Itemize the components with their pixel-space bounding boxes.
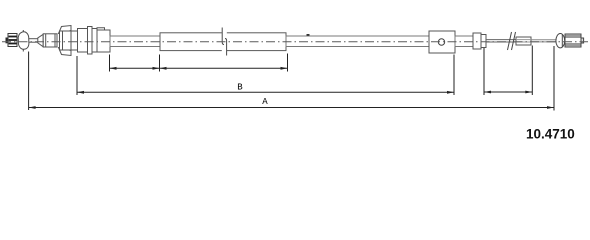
ferrule large bbox=[473, 33, 481, 49]
bare inner cable right segment bbox=[531, 40, 556, 42]
connecting rod bbox=[29, 39, 38, 43]
small dimension conduit length bbox=[160, 67, 288, 70]
extension line at conduit end bbox=[287, 54, 289, 72]
cable break slashes bbox=[508, 32, 516, 50]
bare inner cable segment bbox=[486, 40, 516, 42]
dimension B label bbox=[237, 83, 243, 93]
right tip nub bbox=[581, 38, 584, 43]
extension line at cable after ferrule bbox=[483, 48, 485, 95]
adjuster cylinder A bbox=[43, 34, 57, 47]
cable sleeve spring bbox=[516, 37, 531, 45]
housing vertical band bbox=[88, 27, 93, 55]
outer sheath tube 3 bbox=[455, 36, 473, 47]
svg-text:A: A bbox=[262, 97, 268, 107]
ferrule small bbox=[481, 35, 486, 48]
outer sheath tube 1 bbox=[110, 36, 160, 47]
left cable nipple nub bbox=[6, 38, 9, 44]
right ball end bbox=[556, 34, 565, 48]
part number 10.4710 bbox=[526, 126, 575, 141]
right striped barrel end bbox=[565, 34, 581, 47]
dimension B line bbox=[77, 91, 454, 94]
spring clip body bbox=[60, 31, 78, 50]
dimension A line bbox=[29, 106, 554, 109]
extension line at ball (A right) bbox=[553, 46, 555, 111]
dimension A label bbox=[262, 97, 268, 107]
extension line at housing (B left) bbox=[76, 56, 78, 95]
extension line at sheath start bbox=[109, 55, 111, 72]
svg-text:B: B bbox=[237, 83, 243, 93]
extension line at sleeve end bbox=[531, 46, 533, 96]
spring clip top wing bbox=[59, 26, 72, 34]
tapered cone bbox=[38, 34, 43, 47]
conduit break symbol bbox=[222, 28, 227, 56]
eyelet egg-shaped end piece bbox=[18, 30, 29, 52]
small dimension sleeve bbox=[484, 91, 532, 94]
left striped barrel end bbox=[8, 34, 17, 47]
large conduit tube bbox=[160, 33, 286, 51]
mounting bracket with hole bbox=[429, 31, 455, 53]
extension line at conduit start bbox=[159, 55, 161, 72]
abutment housing block bbox=[78, 29, 98, 53]
extension line at eyelet (A left) bbox=[28, 52, 30, 111]
small dimension sheath-to-conduit bbox=[110, 67, 160, 70]
centerline (dash-dot axis) bbox=[2, 41, 588, 43]
svg-text:10.4710: 10.4710 bbox=[526, 126, 575, 141]
extension line at bracket (B right) bbox=[453, 55, 455, 96]
spring clip bottom wing bbox=[59, 48, 72, 56]
outer sheath tube 2 bbox=[286, 34, 429, 47]
end cylinder B with tab bbox=[97, 28, 110, 52]
